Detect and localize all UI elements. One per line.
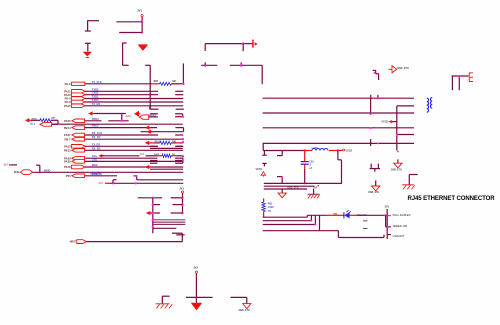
- ground GND_ETH: [243, 304, 251, 309]
- resistor R151: [160, 141, 171, 144]
- node junction: [304, 182, 306, 184]
- pin PA38: [64, 160, 84, 164]
- node junction: [195, 296, 197, 298]
- wire TXD1: [85, 98, 183, 100]
- svg-text:43K: 43K: [51, 117, 55, 120]
- wire: [176, 155, 183, 157]
- ferrite bead L600: [312, 149, 328, 151]
- node junction: [152, 197, 154, 199]
- wire: [110, 182, 183, 184]
- wire: [162, 296, 169, 303]
- value 43K: [51, 117, 55, 120]
- value 1K: [172, 154, 175, 156]
- wire: [231, 297, 247, 303]
- wire center tap upper: [397, 106, 414, 151]
- svg-text:10K: 10K: [172, 141, 176, 143]
- wire row: [52, 123, 183, 125]
- svg-text:4.99K: 4.99K: [268, 206, 274, 209]
- svg-text:SPEED 100: SPEED 100: [393, 224, 408, 228]
- net RX_CLK: [92, 131, 103, 135]
- value 10K: [172, 141, 176, 143]
- wire: [147, 155, 157, 157]
- svg-text:VCC8: VCC8: [381, 121, 388, 124]
- node junction: [181, 212, 183, 214]
- wire 3V3 down: [386, 211, 388, 239]
- node junction: [242, 42, 244, 44]
- pin PA37: [64, 133, 84, 137]
- node junction: [377, 142, 379, 144]
- label PA29: [14, 171, 20, 174]
- pin P50: [66, 174, 85, 178]
- resistor R68 leads: [263, 199, 265, 218]
- wire riser 3: [314, 215, 316, 224]
- svg-text:GND_ETH: GND_ETH: [287, 188, 298, 190]
- capacitor C4 leads: [241, 44, 243, 66]
- direction arrow: [88, 111, 94, 115]
- label R68: [268, 203, 274, 213]
- wire shield rail: [452, 75, 469, 77]
- label D62: [333, 213, 338, 215]
- node junction: [337, 149, 339, 151]
- direction arrow: [99, 154, 104, 158]
- pin PA25: [64, 119, 84, 123]
- led D62 lead2: [349, 214, 387, 216]
- node junction: [377, 98, 379, 100]
- label L600: [312, 146, 319, 150]
- svg-text:NRST: NRST: [70, 242, 77, 244]
- wire corner: [409, 175, 417, 185]
- wire TX_EN jog: [149, 106, 151, 109]
- node junction: [369, 113, 371, 115]
- svg-text:PA-0: PA-0: [65, 82, 71, 86]
- svg-text:R152: R152: [154, 154, 160, 156]
- wire gnd bus 1: [264, 182, 342, 184]
- net MDC: [92, 163, 98, 167]
- wire riser 2: [310, 215, 312, 220]
- node junction: [281, 176, 283, 178]
- wire down from cap rail: [261, 65, 263, 84]
- power 3V3 (bottom): [193, 266, 198, 273]
- capacitor C63 lead: [304, 151, 306, 162]
- wire row: [153, 223, 186, 225]
- resistor R169: [40, 119, 51, 122]
- node junction: [152, 219, 154, 221]
- wire MDC: [85, 166, 183, 168]
- node junction: [136, 175, 138, 177]
- svg-text:3V3: 3V3: [4, 165, 9, 167]
- wire pair line 4: [263, 142, 414, 144]
- svg-text:PA37: PA37: [64, 133, 71, 137]
- wire COL: [85, 158, 183, 161]
- wire TX_EN: [85, 105, 183, 107]
- wire TX_ER: [85, 145, 183, 147]
- ground (sideways bar+triangle): [252, 40, 257, 48]
- label GND_ETH: [397, 67, 409, 70]
- wire stub LINK: [387, 234, 391, 236]
- pin tag PB-6: [40, 123, 52, 127]
- value 1M: [172, 81, 175, 83]
- wire row: [151, 212, 183, 214]
- direction arrow: [145, 126, 151, 130]
- wire shield pin 1: [451, 76, 453, 90]
- ground GND_ETH (bus): [278, 193, 286, 198]
- wire stub row: [150, 161, 183, 164]
- svg-text:VCC8: VCC8: [345, 149, 352, 152]
- led D63 marks: [363, 221, 368, 229]
- net COL: [92, 154, 98, 158]
- connector shield tab: [469, 73, 473, 82]
- node junction: [141, 31, 143, 33]
- svg-text:GND_ETH: GND_ETH: [397, 67, 409, 70]
- power 3V3 stub: [99, 183, 110, 186]
- node junction: [182, 83, 184, 85]
- pin PA22: [64, 144, 85, 148]
- wire cap bottom rail: [201, 64, 262, 66]
- wire NRST: [86, 241, 182, 243]
- net TXD1: [92, 95, 99, 99]
- node junction: [112, 182, 114, 184]
- net MDINTR: [92, 172, 102, 176]
- wire TX_CLK: [85, 83, 183, 85]
- resistor R152 leads: [157, 155, 176, 157]
- net PB-6: [30, 124, 36, 126]
- svg-text:GND_ETH: GND_ETH: [368, 192, 379, 194]
- node junction: [384, 214, 386, 216]
- pin tag NC: [139, 115, 148, 119]
- wire bracket: [122, 114, 126, 121]
- wire row: [138, 197, 183, 199]
- svg-text:3V3: 3V3: [99, 183, 104, 185]
- node junction: [374, 72, 376, 74]
- capacitor C3 leads: [204, 44, 206, 66]
- net TXD0: [92, 98, 99, 102]
- wire row: [153, 204, 183, 206]
- wire stub row: [150, 160, 183, 162]
- net VCC8 stub: [343, 149, 353, 152]
- wire row: [150, 168, 183, 170]
- wire stub above line1: [371, 95, 378, 98]
- resistor R68: [262, 202, 265, 212]
- wire TXD2: [85, 94, 183, 96]
- wire RX_ER: [85, 149, 183, 151]
- wire stub row: [150, 108, 184, 110]
- label LINK/ACT: [393, 234, 405, 238]
- svg-text:PB-6: PB-6: [30, 124, 36, 126]
- wire line4 to VCC8 rail: [262, 143, 264, 150]
- pin PA11: [64, 89, 85, 93]
- svg-text:R63: R63: [154, 81, 159, 83]
- node junction: [152, 203, 154, 205]
- wire led bus 1: [263, 216, 308, 218]
- svg-text:P50: P50: [66, 174, 71, 178]
- chassis ground: [308, 194, 320, 198]
- label R151: [155, 141, 161, 143]
- wire VCC8 down: [338, 151, 342, 184]
- capacitor C62: [277, 151, 282, 184]
- wire pair line 1: [263, 97, 414, 99]
- net CRS: [92, 157, 98, 161]
- wire led bottom: [320, 231, 385, 238]
- svg-text:FULL DUPLEX: FULL DUPLEX: [393, 213, 411, 217]
- wire led to speed: [386, 215, 388, 227]
- wire: [181, 233, 183, 241]
- net RXD3: [92, 117, 99, 121]
- ground GND_ETH (right): [394, 163, 402, 168]
- label FULL DUPLEX: [393, 213, 411, 217]
- node junction: [370, 127, 372, 129]
- net MDINTR: [90, 173, 100, 176]
- pin PA-0: [65, 82, 85, 86]
- wire merge bar: [370, 169, 380, 172]
- led D62 lead: [328, 214, 344, 216]
- svg-text:PA29: PA29: [14, 171, 20, 174]
- pin PA28: [64, 156, 84, 160]
- node junction: [182, 116, 184, 118]
- pin diamond MDIO: [20, 170, 32, 175]
- wire: [31, 119, 40, 121]
- wire vertical: [152, 198, 154, 233]
- transformer T1 primary: [427, 98, 429, 112]
- pin PA15: [64, 104, 85, 108]
- power 3V3 label (red): [140, 153, 147, 156]
- wire jog to MDIO: [36, 165, 40, 172]
- label R152: [154, 154, 160, 156]
- wire corner into ladder: [145, 65, 150, 109]
- direction arrow: [145, 165, 151, 169]
- label YELLOW: [357, 214, 368, 217]
- wire stub: [176, 234, 184, 236]
- node junction: [182, 141, 184, 143]
- direction arrow: [145, 141, 151, 145]
- power 3V3 stub: [4, 164, 17, 167]
- wire from arrow: [94, 113, 122, 115]
- wire tick line4: [370, 139, 372, 146]
- svg-text:GND_ETH: GND_ETH: [239, 310, 250, 312]
- svg-text:LINK/ACT: LINK/ACT: [393, 234, 405, 238]
- capacitor C1: [85, 31, 91, 51]
- wire row: [153, 227, 177, 229]
- net VCC8 label: [256, 169, 263, 171]
- svg-text:PA25: PA25: [64, 119, 71, 123]
- wire cap top rail: [205, 43, 252, 45]
- wire: [52, 123, 58, 125]
- net VCC8 arrow: [381, 120, 396, 124]
- svg-text:3V3: 3V3: [385, 205, 390, 208]
- wire gnd lead: [375, 180, 377, 186]
- wire CRS: [85, 160, 183, 162]
- svg-text:VCC8: VCC8: [256, 169, 263, 171]
- resistor R63: [160, 82, 172, 85]
- node junction: [152, 212, 154, 214]
- node junction: [240, 65, 242, 67]
- net MDIO: [44, 168, 51, 172]
- capacitor C2 (bracket): [123, 43, 129, 66]
- svg-text:PA78: PA78: [64, 165, 71, 169]
- wire from 3V3 down: [141, 17, 143, 33]
- net TX_ER: [92, 142, 100, 146]
- wire riser 4: [319, 215, 321, 230]
- wire TXD0: [85, 101, 183, 103]
- pin PA10: [64, 93, 85, 97]
- ferrite bead L600 leads: [305, 150, 338, 152]
- wire gnd bus 2: [264, 185, 315, 187]
- svg-text:1%: 1%: [268, 211, 271, 213]
- capacitor C63: [301, 162, 309, 165]
- ground (filled): [191, 303, 202, 311]
- label GND_ETH: [368, 192, 379, 194]
- svg-text:PVCC: PVCC: [126, 116, 132, 118]
- net TXD3: [92, 87, 99, 91]
- node junction: [181, 203, 183, 205]
- wire stub row: [148, 114, 182, 117]
- direction arrow: [146, 211, 152, 215]
- label GND_ETH: [391, 169, 402, 171]
- svg-text:1K: 1K: [172, 154, 175, 156]
- wire stub SPEED: [386, 226, 391, 228]
- svg-text:3V3: 3V3: [140, 153, 145, 156]
- svg-text:C63: C63: [309, 161, 314, 163]
- direction arrow: [25, 118, 31, 122]
- svg-text:PA-9: PA-9: [65, 97, 71, 101]
- ground GND_ETH (mid): [372, 186, 380, 191]
- net TX_CLK: [92, 80, 102, 84]
- node junction: [181, 197, 183, 199]
- wire stubs below line4: [371, 164, 378, 169]
- capacitor C63 lead2: [304, 164, 306, 183]
- svg-text:PB14: PB14: [64, 126, 71, 130]
- svg-text:PA15: PA15: [64, 104, 71, 108]
- svg-text:R68: R68: [268, 203, 273, 205]
- wire: [51, 120, 58, 124]
- wire jog: [373, 70, 379, 80]
- title RJ45 ETHERNET CONNECTOR: [408, 196, 496, 202]
- svg-text:RBIAS: RBIAS: [149, 114, 157, 117]
- wire gnd lead right: [397, 151, 399, 163]
- label NRST: [70, 242, 77, 244]
- pin PB14: [64, 126, 85, 130]
- label GND_ETH: [239, 310, 250, 312]
- svg-text:GND_ETH: GND_ETH: [391, 169, 402, 171]
- wire pair line 3: [263, 127, 414, 129]
- wire right vertical: [182, 63, 184, 83]
- wire stub FULL DUPLEX: [387, 215, 391, 217]
- net RX_ER: [92, 146, 101, 150]
- wire center tap lower: [397, 134, 414, 136]
- node junction: [182, 155, 184, 157]
- label C63: [309, 161, 314, 169]
- power 3V3 (top): [137, 9, 143, 17]
- svg-text:3V3: 3V3: [193, 266, 198, 269]
- resistor R63 leads: [152, 83, 178, 85]
- label GND_ETH: [287, 188, 298, 190]
- node junction: [396, 133, 398, 135]
- ground arrow (filled): [138, 45, 147, 51]
- resistor R151 leads: [150, 142, 180, 144]
- node junction: [310, 220, 312, 222]
- node junction: [135, 182, 137, 184]
- wire: top-left corner to capacitor C1: [88, 20, 99, 31]
- net RX_DV: [92, 135, 101, 139]
- direction arrow big: [134, 111, 141, 117]
- svg-text:PA10: PA10: [64, 93, 71, 97]
- ground GND_ETH (sideways): [388, 66, 397, 73]
- wire jog: [113, 180, 117, 184]
- wire riser 1: [306, 215, 308, 217]
- node junction: [314, 224, 316, 226]
- node junction: [141, 21, 143, 23]
- power 3V3 label: [313, 185, 319, 189]
- label R169: [32, 118, 38, 120]
- wire: [153, 142, 183, 144]
- node junction: [241, 64, 243, 66]
- wire stub: [172, 232, 182, 234]
- svg-text:1M: 1M: [172, 81, 175, 83]
- wire upper branch: [116, 21, 142, 23]
- svg-text:R169: R169: [32, 118, 38, 120]
- node junction: [39, 171, 41, 173]
- wire gnd lead: [281, 189, 283, 193]
- node junction: [152, 226, 154, 228]
- pin PA-8: [65, 100, 85, 104]
- pin PA78: [64, 165, 85, 169]
- wire: [338, 150, 343, 152]
- wire row: [153, 219, 186, 221]
- label R63: [154, 81, 159, 83]
- svg-text:RJ45 ETHERNET CONNECTOR: RJ45 ETHERNET CONNECTOR: [408, 196, 496, 202]
- svg-text:3V3: 3V3: [179, 187, 184, 190]
- svg-text:R151: R151: [155, 141, 161, 143]
- wire TXD3: [85, 90, 183, 92]
- power arrow up: [261, 172, 265, 177]
- net RXD2: [92, 124, 99, 128]
- wire gnd bus 3: [264, 188, 307, 190]
- node junction: [304, 149, 306, 151]
- wire VCC8 rail: [263, 150, 305, 152]
- wire row: [141, 131, 184, 133]
- wire 3V3 down: [182, 193, 184, 213]
- svg-text:PB13: PB13: [64, 148, 71, 152]
- wire RX_CLK: [85, 134, 183, 136]
- node junction: [204, 65, 206, 67]
- wire row: [150, 147, 183, 149]
- wire stub row: [150, 145, 183, 147]
- wire shield pin 2: [458, 76, 460, 90]
- ground (power gnd, filled): [83, 52, 92, 58]
- wire MDINTR: [85, 175, 117, 177]
- wire: [102, 155, 139, 157]
- led D62: [344, 210, 351, 218]
- pin PB-7: [64, 137, 84, 141]
- svg-text:L600: L600: [312, 146, 319, 150]
- node junction: [458, 75, 460, 77]
- chassis ground: [156, 304, 173, 309]
- svg-text:PA-8: PA-8: [65, 100, 71, 104]
- power 3V3: [179, 187, 184, 193]
- svg-text:MDINTR: MDINTR: [90, 173, 100, 176]
- wire led bus 3: [263, 224, 316, 226]
- wire pair line 2: [263, 112, 414, 114]
- net RBIAS: [149, 114, 157, 117]
- wire: [313, 189, 315, 194]
- wire: [195, 273, 197, 302]
- pin PB13: [64, 148, 85, 152]
- power 3V3 (LED): [385, 205, 390, 210]
- wire RXD3: [85, 120, 129, 122]
- node junction: [121, 120, 123, 122]
- pin NRST: [77, 240, 87, 244]
- wire: [186, 296, 213, 298]
- svg-text:PA11: PA11: [64, 89, 71, 93]
